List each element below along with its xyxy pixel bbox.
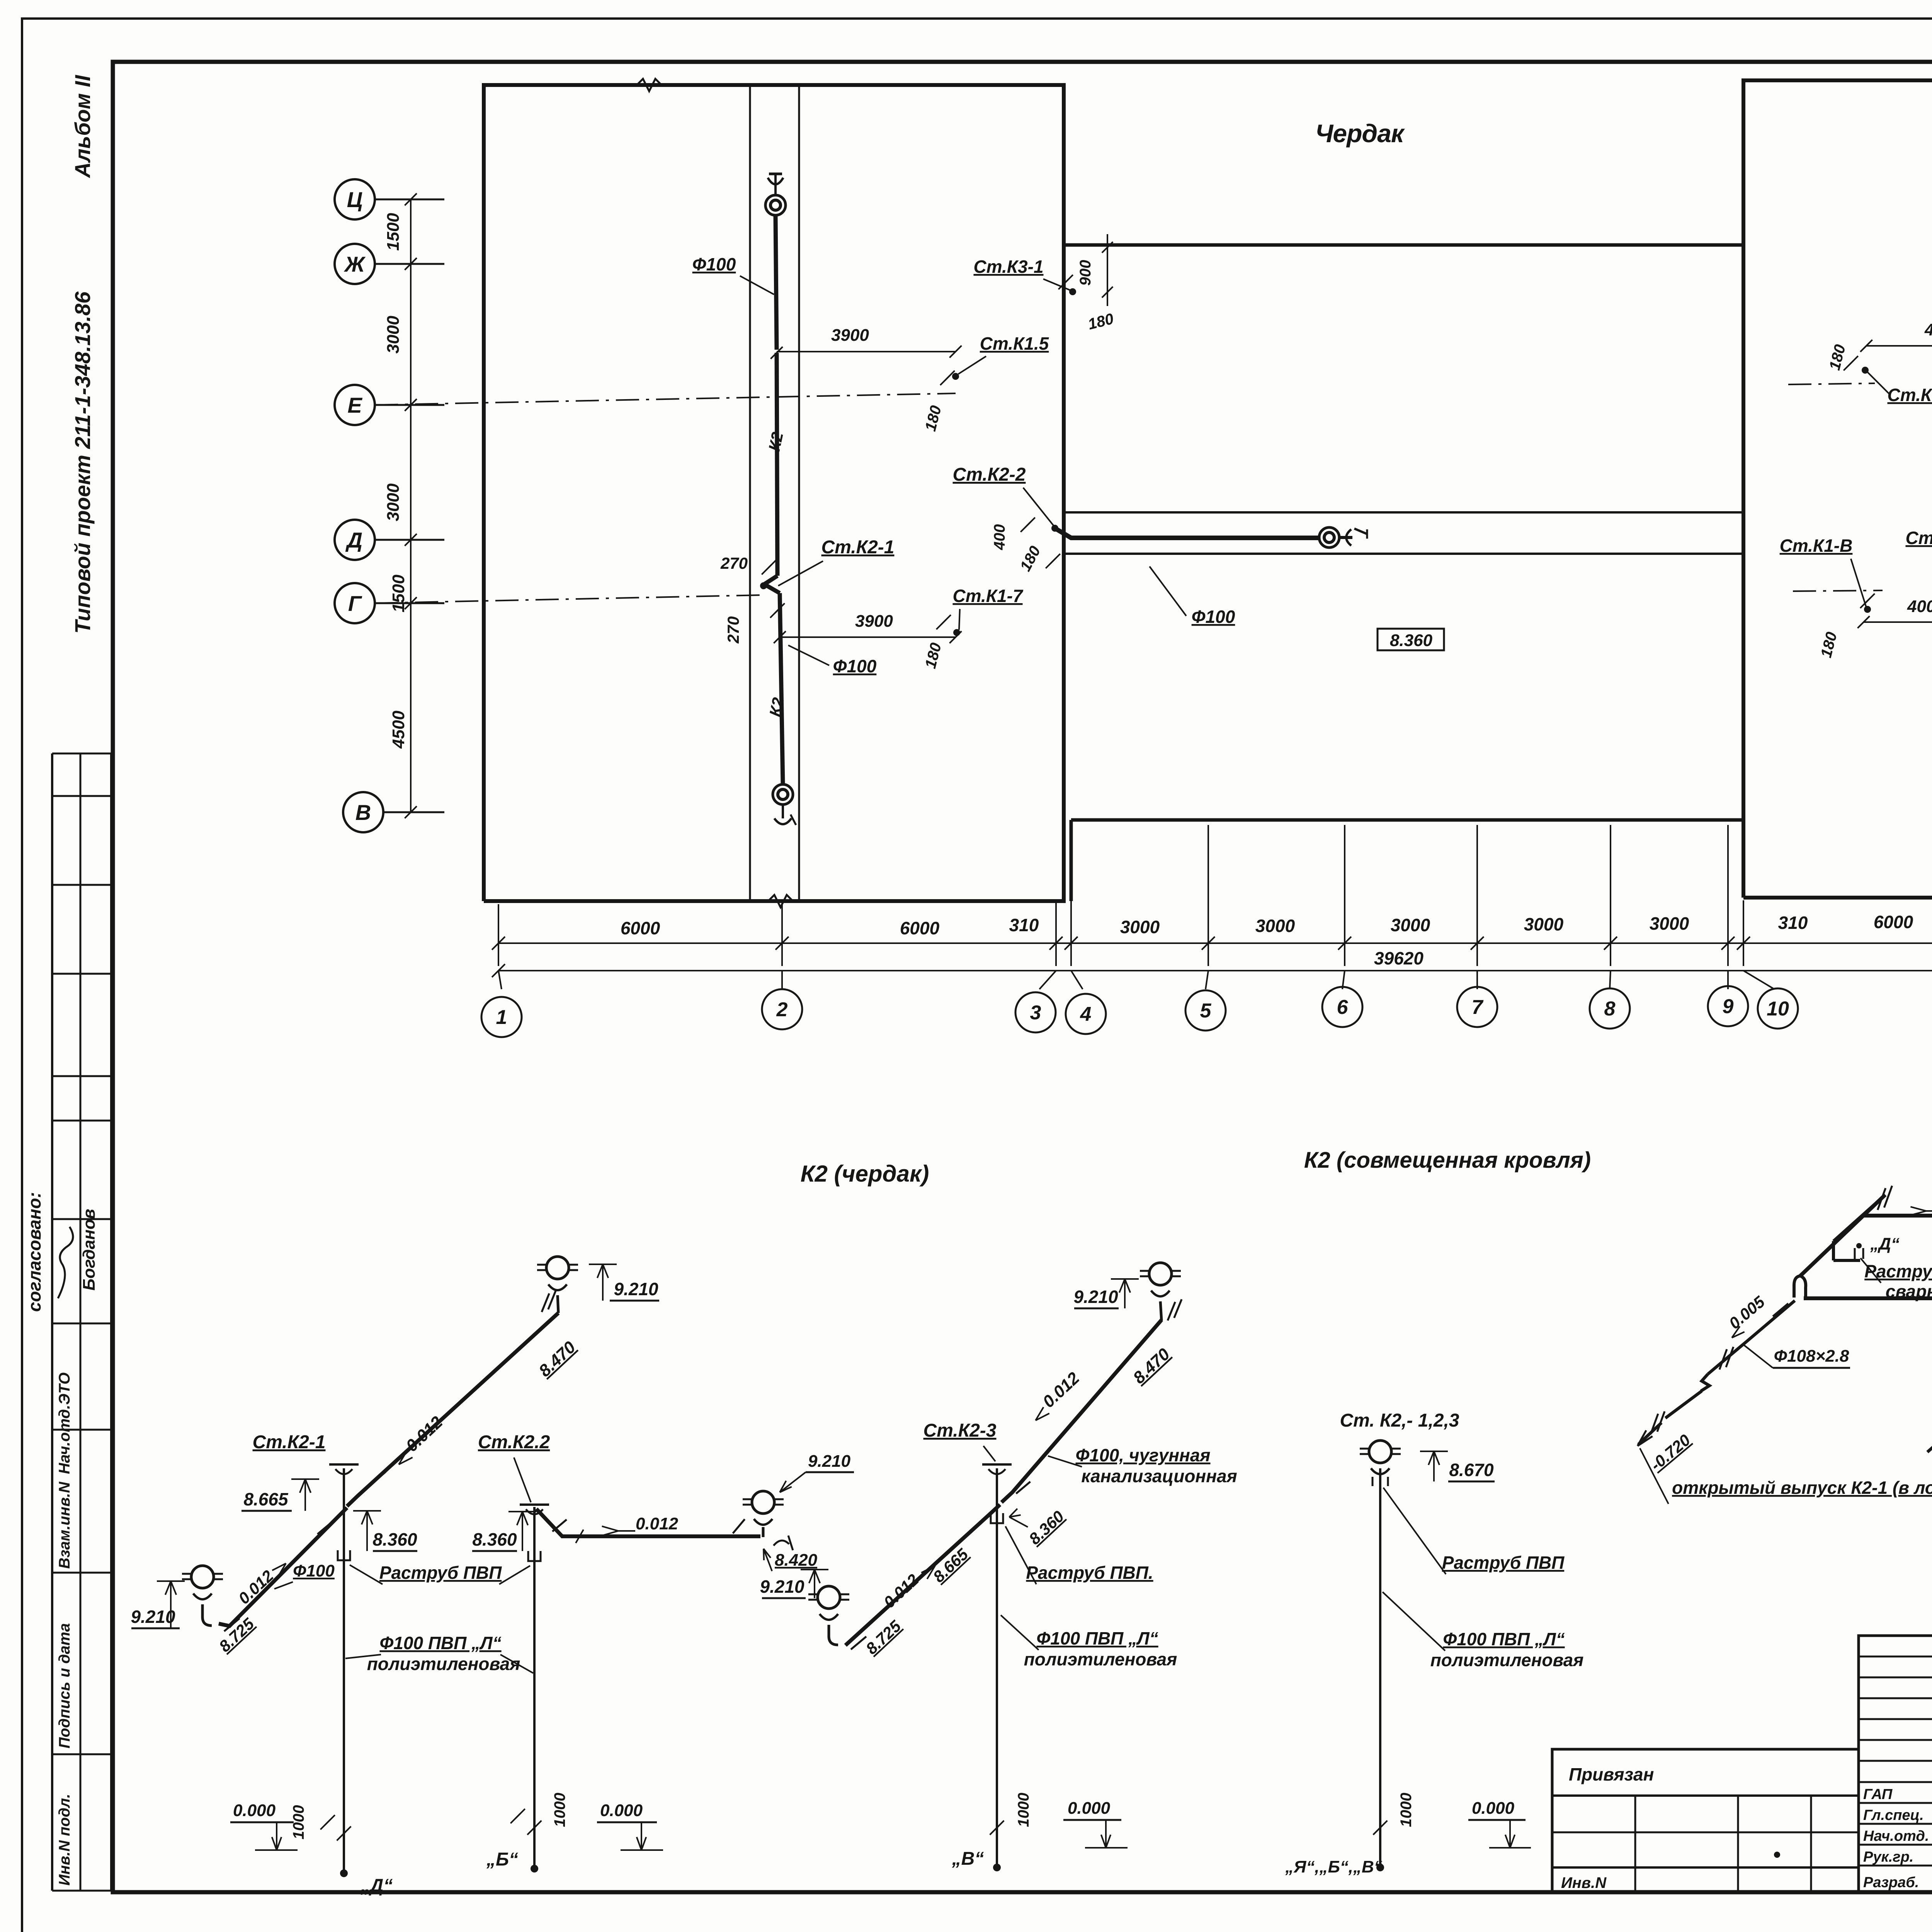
dim 4000 upper bbox=[1866, 345, 1932, 347]
svg-text:310: 310 bbox=[1778, 913, 1808, 933]
riser Ст.К2-1 stack bbox=[343, 1468, 345, 1873]
svg-text:3000: 3000 bbox=[384, 316, 403, 354]
axis Е dash-dot right segment bbox=[1788, 383, 1875, 384]
trap hook C1 bbox=[1794, 1276, 1800, 1298]
pipe stub to hook bbox=[1338, 536, 1352, 539]
diagonal pipe riser1 to vent bbox=[347, 1313, 558, 1506]
svg-text:Раструб ПВП: Раструб ПВП bbox=[379, 1563, 502, 1583]
svg-text:3900: 3900 bbox=[855, 612, 893, 631]
привязан table bbox=[1552, 1749, 1859, 1893]
svg-text:3000: 3000 bbox=[1524, 914, 1564, 934]
pipe K2 left upper segment bbox=[776, 216, 777, 350]
svg-text:Ф100: Ф100 bbox=[833, 656, 877, 676]
svg-text:3000: 3000 bbox=[1120, 917, 1160, 937]
axis bubble 1 bbox=[481, 997, 522, 1037]
side stamp box grid bbox=[51, 753, 53, 1891]
svg-text:1000: 1000 bbox=[1398, 1793, 1415, 1827]
svg-text:открытый выпуск К2-1 (в лоток): открытый выпуск К2-1 (в лоток) bbox=[1672, 1478, 1932, 1498]
point Ст.К1-6 bbox=[1862, 367, 1869, 374]
svg-text:согласовано:: согласовано: bbox=[24, 1192, 44, 1312]
svg-text:Е: Е bbox=[347, 393, 362, 417]
svg-text:Д: Д bbox=[345, 528, 362, 552]
svg-text:9.210: 9.210 bbox=[131, 1607, 175, 1627]
svg-text:4000: 4000 bbox=[1924, 320, 1932, 339]
svg-text:Типовой проект 211-1-348.13.: Типовой проект 211-1-348.13.86 bbox=[70, 291, 95, 634]
svg-text:1500: 1500 bbox=[384, 213, 403, 251]
svg-text:6000: 6000 bbox=[900, 918, 940, 938]
axis bubble 10 bbox=[1758, 988, 1798, 1029]
dim 3900 upper line bbox=[777, 351, 956, 352]
svg-text:Раструб стальной: Раструб стальной bbox=[1864, 1261, 1932, 1281]
axis bubble 4 bbox=[1066, 994, 1106, 1034]
svg-text:Ст.К2-3: Ст.К2-3 bbox=[923, 1420, 997, 1441]
vent assembly bottom-left A bbox=[191, 1566, 214, 1588]
elevation box 8.360 bbox=[1378, 629, 1444, 650]
vent assembly top (riser1 diag) bbox=[546, 1257, 569, 1279]
pipe К2-2 horizontal bbox=[1055, 528, 1320, 538]
diagonal pipe vent to riser3 bbox=[845, 1505, 1000, 1645]
svg-text:4000: 4000 bbox=[1907, 597, 1932, 616]
svg-text:К2: К2 bbox=[766, 696, 787, 718]
svg-text:В: В bbox=[355, 800, 371, 825]
vent assembly top riser3 bbox=[1149, 1263, 1172, 1285]
svg-text:3900: 3900 bbox=[831, 326, 869, 345]
pipe to K1 C1 bbox=[1927, 1414, 1932, 1452]
svg-text:Ст.К2-1: Ст.К2-1 bbox=[253, 1432, 326, 1452]
svg-text:1000: 1000 bbox=[551, 1793, 568, 1827]
svg-text:Ф100 ПВП „Л“: Ф100 ПВП „Л“ bbox=[379, 1633, 501, 1653]
svg-text:Раструб ПВП.: Раструб ПВП. bbox=[1026, 1563, 1153, 1583]
axis bubble 8 bbox=[1590, 988, 1630, 1029]
svg-text:6000: 6000 bbox=[1874, 912, 1913, 932]
svg-text:10: 10 bbox=[1767, 998, 1789, 1020]
main diagonal upper C1 bbox=[1800, 1195, 1885, 1276]
svg-text:Ж: Ж bbox=[344, 252, 366, 276]
svg-text:4: 4 bbox=[1080, 1003, 1092, 1026]
svg-text:0.000: 0.000 bbox=[600, 1801, 643, 1820]
svg-text:Ст.К3-1: Ст.К3-1 bbox=[973, 257, 1043, 277]
svg-text:Инв.N подл.: Инв.N подл. bbox=[56, 1794, 73, 1886]
stack joint Ст.К2-1 jog bbox=[764, 576, 780, 593]
vent assembly at run end bbox=[752, 1491, 774, 1514]
descent diagonal C1 bbox=[1708, 1301, 1795, 1374]
svg-text:6: 6 bbox=[1337, 996, 1349, 1019]
svg-text:Ст.К2.2: Ст.К2.2 bbox=[478, 1432, 550, 1452]
riser Ст.К2.2 bottom node Б bbox=[531, 1865, 538, 1872]
point Ст.К3-1 bbox=[1069, 288, 1076, 295]
svg-text:3: 3 bbox=[1030, 1002, 1041, 1024]
svg-text:Ст.К1-7: Ст.К1-7 bbox=[952, 586, 1023, 606]
svg-text:3000: 3000 bbox=[1255, 916, 1295, 936]
vent stack top-left bbox=[765, 195, 786, 215]
svg-text:5: 5 bbox=[1200, 1000, 1212, 1022]
svg-text:„В“: „В“ bbox=[952, 1849, 984, 1869]
bottom total dimension line bbox=[498, 970, 1932, 971]
svg-text:1500: 1500 bbox=[389, 575, 408, 612]
vent assembly Ст.К2-123 bbox=[1369, 1440, 1391, 1463]
svg-text:310: 310 bbox=[1009, 915, 1039, 935]
svg-text:0.000: 0.000 bbox=[1068, 1799, 1111, 1818]
svg-text:Ф100 ПВП „Л“: Ф100 ПВП „Л“ bbox=[1036, 1628, 1158, 1648]
svg-text:Инв.N: Инв.N bbox=[1561, 1874, 1607, 1891]
svg-text:Ст.К1-6: Ст.К1-6 bbox=[1887, 385, 1932, 405]
svg-text:Ф100, чугунная: Ф100, чугунная bbox=[1076, 1445, 1211, 1465]
riser Ст.К2-3 stack bbox=[996, 1468, 998, 1867]
axis bubble 3 bbox=[1015, 992, 1056, 1032]
svg-text:3000: 3000 bbox=[1650, 913, 1689, 934]
personnel table grid bbox=[1859, 1636, 1932, 1893]
svg-text:1: 1 bbox=[496, 1006, 507, 1029]
axis bubble Е bbox=[335, 385, 375, 425]
svg-text:„Д“: „Д“ bbox=[361, 1876, 393, 1896]
axis bubble В bbox=[343, 792, 383, 832]
svg-text:К2 (чердак): К2 (чердак) bbox=[801, 1161, 929, 1187]
svg-text:8.420: 8.420 bbox=[775, 1551, 818, 1570]
riser Ст.К2-123 stack bbox=[1379, 1468, 1381, 1867]
svg-text:Ст.К1.5: Ст.К1.5 bbox=[980, 333, 1049, 354]
svg-text:8: 8 bbox=[1604, 998, 1616, 1020]
svg-text:Ст.К2-1: Ст.К2-1 bbox=[821, 537, 895, 558]
svg-text:9: 9 bbox=[1723, 995, 1734, 1018]
svg-text:Ц: Ц bbox=[347, 187, 363, 212]
svg-text:канализационная: канализационная bbox=[1081, 1466, 1237, 1486]
svg-text:Ф108×2.8: Ф108×2.8 bbox=[1774, 1347, 1849, 1366]
svg-text:270: 270 bbox=[724, 616, 742, 644]
svg-text:Ст.К2-3: Ст.К2-3 bbox=[1905, 528, 1932, 548]
svg-text:8.670: 8.670 bbox=[1449, 1460, 1494, 1480]
left building internal walls bbox=[749, 85, 751, 901]
riser Ст.К2-1 bottom node Д bbox=[340, 1869, 348, 1877]
svg-text:8.360: 8.360 bbox=[1390, 631, 1433, 650]
привязан dot bbox=[1774, 1852, 1780, 1858]
diagonal pipe riser3 up bbox=[1002, 1320, 1162, 1502]
point Ст.К1-7 bbox=[953, 629, 960, 636]
axis bubble 7 bbox=[1457, 987, 1497, 1027]
middle building bottom edge bbox=[1071, 818, 1743, 822]
axis Г dash-dot line bbox=[375, 595, 761, 603]
bottom dimension line bbox=[498, 942, 1932, 944]
vent assembly bottom riser3 bbox=[818, 1586, 840, 1609]
svg-text:Ст. К2,- 1,2,3: Ст. К2,- 1,2,3 bbox=[1340, 1410, 1459, 1431]
svg-text:270: 270 bbox=[720, 554, 748, 572]
svg-text:0.000: 0.000 bbox=[1472, 1799, 1515, 1818]
pipe K2 left mid segment bbox=[777, 353, 777, 576]
left axis dimension line bbox=[410, 199, 412, 812]
svg-text:Ф100: Ф100 bbox=[1192, 607, 1235, 627]
svg-text:Нач.отд.: Нач.отд. bbox=[1863, 1828, 1929, 1844]
axis Г dash-dot right segment bbox=[1793, 590, 1883, 591]
svg-text:Привязан: Привязан bbox=[1569, 1764, 1654, 1784]
pipe K2 left lower segment bbox=[780, 593, 783, 784]
outlet K2-1 top pipe bbox=[1863, 1214, 1932, 1218]
svg-text:9.210: 9.210 bbox=[808, 1452, 851, 1471]
left building outline bbox=[484, 85, 1064, 901]
axis bubble Д bbox=[335, 520, 375, 560]
svg-text:400: 400 bbox=[991, 524, 1008, 551]
point Ст.К1-В bbox=[1864, 606, 1871, 613]
axis bubble 5 bbox=[1185, 990, 1226, 1031]
vent on corridor pipe bbox=[1319, 527, 1339, 548]
svg-text:9.210: 9.210 bbox=[1073, 1287, 1118, 1307]
svg-text:Ф100 ПВП „Л“: Ф100 ПВП „Л“ bbox=[1443, 1629, 1565, 1649]
extension lines above ticks bbox=[498, 904, 499, 966]
svg-text:8.360: 8.360 bbox=[472, 1529, 517, 1549]
right building outline bbox=[1743, 80, 1932, 898]
outlet K2-1 stub diagonal with break bbox=[1833, 1195, 1885, 1241]
axis bubble Ж bbox=[335, 244, 375, 284]
riser Ст.К2-3 bottom node В bbox=[993, 1864, 1001, 1871]
svg-text:1000: 1000 bbox=[290, 1805, 307, 1840]
point Ст.К1.5 bbox=[952, 373, 959, 380]
bubble leader lines bbox=[498, 971, 502, 989]
middle corridor walls bbox=[1064, 511, 1743, 514]
svg-text:Взам.инв.N: Взам.инв.N bbox=[56, 1481, 73, 1569]
svg-text:Нач.отд.ЭТО: Нач.отд.ЭТО bbox=[56, 1372, 73, 1474]
svg-text:Разраб.: Разраб. bbox=[1863, 1874, 1919, 1891]
svg-text:„Д“: „Д“ bbox=[1870, 1235, 1900, 1253]
dim 4000 lower bbox=[1864, 621, 1932, 623]
svg-text:Раструб ПВП: Раструб ПВП bbox=[1442, 1553, 1565, 1573]
axis bubble 2 bbox=[762, 989, 802, 1029]
svg-text:7: 7 bbox=[1472, 996, 1484, 1019]
svg-text:4500: 4500 bbox=[389, 711, 408, 749]
svg-text:0.012: 0.012 bbox=[636, 1514, 679, 1533]
svg-text:Гл.спец.: Гл.спец. bbox=[1863, 1807, 1924, 1823]
svg-text:полиэтиленовая: полиэтиленовая bbox=[1024, 1649, 1177, 1669]
svg-text:полиэтиленовая: полиэтиленовая bbox=[1430, 1650, 1584, 1670]
vent stack bottom-left bbox=[773, 784, 793, 804]
middle building top edge bbox=[1064, 243, 1743, 247]
svg-text:Подпись и дата: Подпись и дата bbox=[56, 1623, 73, 1748]
axis bubble Ц bbox=[335, 179, 375, 219]
svg-text:6000: 6000 bbox=[621, 918, 660, 938]
svg-text:„Б“: „Б“ bbox=[486, 1849, 518, 1870]
pipe riser2 to horizontal run bbox=[536, 1509, 760, 1536]
svg-text:3000: 3000 bbox=[384, 483, 403, 521]
svg-text:8.665: 8.665 bbox=[243, 1489, 289, 1509]
svg-text:0.000: 0.000 bbox=[233, 1801, 276, 1820]
svg-text:„Я“,„Б“,„В“: „Я“,„Б“,„В“ bbox=[1285, 1857, 1382, 1876]
svg-text:Чердак: Чердак bbox=[1315, 119, 1405, 148]
svg-text:Ст.К2-2: Ст.К2-2 bbox=[953, 464, 1026, 485]
svg-text:полиэтиленовая: полиэтиленовая bbox=[367, 1654, 520, 1674]
svg-text:9.210: 9.210 bbox=[760, 1577, 804, 1597]
lower run C1 bbox=[1804, 1296, 1932, 1300]
svg-text:Альбом II: Альбом II bbox=[70, 75, 95, 179]
svg-text:Ф100: Ф100 bbox=[692, 254, 736, 274]
svg-text:ГАП: ГАП bbox=[1863, 1786, 1893, 1803]
svg-text:Ф100: Ф100 bbox=[293, 1561, 335, 1580]
axis bubble Г bbox=[335, 583, 375, 623]
diagonal pipe riser1 down-left bbox=[219, 1508, 347, 1626]
riser Ст.К2.2 stack bbox=[533, 1507, 536, 1869]
svg-text:К2 (совмещенная кровля): К2 (совмещенная кровля) bbox=[1304, 1148, 1591, 1173]
svg-text:Рук.гр.: Рук.гр. bbox=[1863, 1849, 1913, 1865]
svg-text:9.210: 9.210 bbox=[614, 1279, 658, 1299]
stack point Ст.К2-2 bbox=[1051, 525, 1058, 532]
svg-text:39620: 39620 bbox=[1374, 948, 1423, 968]
node Д piece bbox=[1832, 1241, 1835, 1260]
svg-text:3000: 3000 bbox=[1391, 915, 1430, 935]
dim 3900 lower line bbox=[780, 636, 956, 638]
svg-text:8.360: 8.360 bbox=[372, 1529, 417, 1549]
axis bubble 9 bbox=[1708, 986, 1748, 1026]
svg-text:Ст.К1-В: Ст.К1-В bbox=[1780, 536, 1853, 556]
svg-text:2: 2 bbox=[776, 998, 788, 1021]
axis Е dash-dot line bbox=[375, 393, 956, 405]
riser Ст.К2-123 bottom node bbox=[1376, 1864, 1384, 1871]
svg-text:Г: Г bbox=[348, 591, 362, 616]
svg-text:1000: 1000 bbox=[1015, 1793, 1032, 1827]
axis bubble 6 bbox=[1322, 987, 1362, 1027]
svg-text:Богданов: Богданов bbox=[80, 1209, 99, 1291]
svg-text:900: 900 bbox=[1077, 260, 1094, 286]
